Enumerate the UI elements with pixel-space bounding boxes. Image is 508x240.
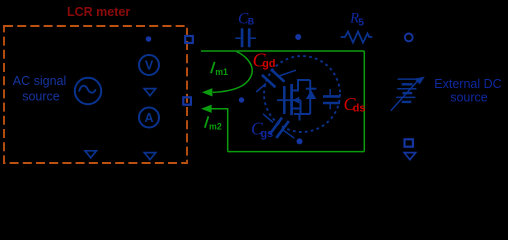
terminal square H (top, on box edge) — [185, 36, 193, 43]
source verticals / bottom bar — [300, 100, 302, 114]
gate node dot — [239, 97, 244, 102]
middle stub — [293, 99, 301, 101]
svg-text:AC signal: AC signal — [13, 74, 67, 88]
svg-text:LCR meter: LCR meter — [67, 5, 130, 19]
svg-text:B: B — [248, 17, 254, 27]
MOSFET package dashed circle — [264, 56, 340, 132]
AC source V1 — [75, 78, 101, 104]
capacitor Cgd — [256, 69, 296, 92]
svg-text:External DC: External DC — [434, 77, 501, 91]
LCR meter dashed box — [4, 26, 187, 163]
external DC source battery symbol — [396, 79, 417, 102]
wire bottom — [228, 151, 365, 153]
svg-text:V: V — [145, 58, 154, 72]
svg-text:m2: m2 — [209, 122, 222, 132]
arrow Im2 — [201, 105, 212, 113]
terminal triangle below A — [144, 153, 155, 160]
channel bar — [290, 84, 293, 115]
resistor Rs — [341, 32, 373, 43]
diode triangle — [306, 90, 317, 99]
svg-text:m1: m1 — [215, 67, 228, 77]
svg-text:source: source — [22, 90, 60, 104]
voltmeter V — [139, 55, 159, 75]
terminal triangle below AC source — [85, 151, 96, 158]
arrow Im1 — [202, 88, 213, 96]
svg-text:5: 5 — [358, 18, 364, 29]
wire left — [212, 109, 228, 152]
wire top — [201, 50, 364, 52]
ammeter A — [139, 108, 159, 128]
terminal square L (lower, on box edge) — [183, 97, 191, 104]
terminal triangle (DC bias low) — [404, 153, 415, 160]
transistor Q1 (MOSFET with body diode) — [277, 80, 310, 121]
label Im1 — [211, 62, 215, 73]
diode vertical — [309, 80, 311, 114]
node dot above voltmeter — [146, 36, 152, 42]
terminal circle (DC bias high) — [405, 34, 413, 42]
terminal square (DC bias low) — [405, 139, 413, 146]
wire: green measurement loop — [201, 51, 364, 152]
svg-text:A: A — [144, 111, 153, 125]
svg-text:gs: gs — [261, 128, 274, 140]
gate lead — [277, 99, 291, 101]
source stub — [292, 108, 301, 110]
capacitor Cgs — [263, 114, 294, 138]
variable arrow over battery — [391, 81, 418, 111]
svg-text:source: source — [450, 91, 488, 105]
label Im2 — [205, 116, 209, 127]
capacitor Cds — [323, 89, 340, 109]
terminal triangle below V — [144, 89, 155, 96]
diode cathode bar — [306, 88, 317, 90]
drain stub + drain L — [292, 80, 310, 91]
svg-text:ds: ds — [353, 103, 366, 115]
source node dot — [297, 138, 303, 144]
node dot (drain node, top) — [295, 34, 301, 40]
capacitor Cs — [235, 28, 256, 47]
body-substrate arrow — [293, 97, 300, 104]
svg-text:gd: gd — [262, 58, 275, 70]
wire Im1 curve — [213, 52, 252, 93]
gate bar — [283, 86, 286, 114]
wire right — [363, 51, 365, 152]
